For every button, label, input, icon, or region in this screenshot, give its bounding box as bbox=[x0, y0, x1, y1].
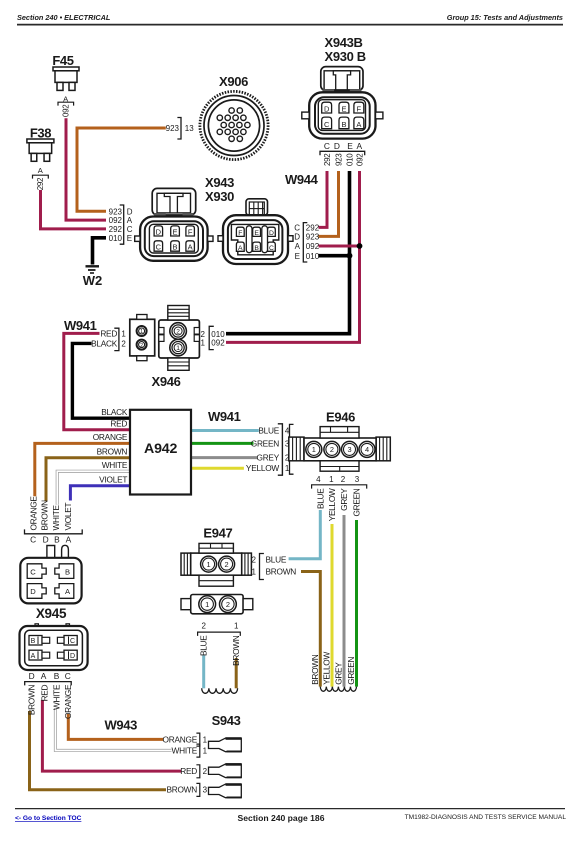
svg-text:A: A bbox=[127, 216, 133, 225]
svg-text:923: 923 bbox=[306, 233, 320, 242]
svg-text:F: F bbox=[238, 230, 242, 237]
svg-text:W943: W943 bbox=[105, 718, 138, 733]
svg-text:GREEN: GREEN bbox=[251, 438, 280, 448]
svg-text:1: 1 bbox=[207, 560, 211, 569]
svg-text:X943: X943 bbox=[205, 175, 234, 190]
svg-text:923: 923 bbox=[109, 207, 123, 216]
svg-text:X946: X946 bbox=[152, 374, 181, 389]
svg-text:2: 2 bbox=[121, 339, 126, 348]
svg-text:BLACK: BLACK bbox=[101, 407, 128, 417]
svg-text:A: A bbox=[238, 245, 243, 252]
svg-text:F: F bbox=[188, 228, 193, 237]
svg-text:GREEN: GREEN bbox=[346, 656, 356, 684]
svg-text:2: 2 bbox=[201, 330, 206, 339]
svg-text:2: 2 bbox=[140, 343, 143, 349]
svg-text:BROWN: BROWN bbox=[40, 500, 50, 531]
svg-text:923: 923 bbox=[334, 153, 343, 166]
svg-text:B: B bbox=[31, 638, 36, 645]
svg-text:C: C bbox=[324, 120, 330, 129]
svg-text:WHITE: WHITE bbox=[102, 460, 128, 470]
svg-text:BROWN: BROWN bbox=[166, 785, 197, 795]
svg-text:X945: X945 bbox=[36, 606, 67, 621]
svg-text:A: A bbox=[356, 120, 361, 129]
svg-text:092: 092 bbox=[61, 104, 70, 117]
svg-text:WHITE: WHITE bbox=[52, 684, 62, 710]
svg-text:W944: W944 bbox=[285, 172, 319, 187]
svg-text:GREY: GREY bbox=[334, 662, 344, 685]
svg-text:GREEN: GREEN bbox=[352, 488, 362, 516]
svg-text:ORANGE: ORANGE bbox=[63, 684, 73, 719]
svg-text:D: D bbox=[269, 230, 274, 237]
svg-text:BLUE: BLUE bbox=[199, 635, 209, 656]
svg-text:B: B bbox=[254, 245, 259, 252]
svg-text:2: 2 bbox=[225, 560, 229, 569]
svg-text:ORANGE: ORANGE bbox=[93, 432, 128, 442]
svg-text:923: 923 bbox=[166, 124, 180, 133]
svg-text:WHITE: WHITE bbox=[172, 745, 198, 755]
svg-text:3: 3 bbox=[203, 786, 208, 795]
svg-text:S943: S943 bbox=[212, 713, 241, 728]
svg-text:E947: E947 bbox=[203, 526, 232, 541]
svg-text:X906: X906 bbox=[219, 74, 248, 89]
svg-text:D: D bbox=[70, 653, 75, 660]
svg-text:292: 292 bbox=[306, 224, 320, 233]
svg-text:C: C bbox=[70, 638, 75, 645]
svg-text:C: C bbox=[65, 671, 71, 681]
svg-text:RED: RED bbox=[110, 419, 127, 429]
svg-text:X930 B: X930 B bbox=[325, 49, 366, 64]
svg-text:010: 010 bbox=[306, 252, 320, 261]
svg-text:1: 1 bbox=[329, 475, 334, 484]
svg-text:<- Go to Section TOC: <- Go to Section TOC bbox=[15, 815, 82, 822]
svg-text:A942: A942 bbox=[144, 441, 177, 457]
svg-text:D: D bbox=[156, 228, 162, 237]
svg-text:D: D bbox=[294, 233, 300, 242]
svg-text:W2: W2 bbox=[83, 273, 103, 288]
svg-text:2: 2 bbox=[252, 556, 257, 565]
svg-text:C: C bbox=[127, 225, 133, 234]
svg-text:X943B: X943B bbox=[325, 35, 363, 50]
svg-text:C: C bbox=[294, 224, 300, 233]
svg-text:E: E bbox=[295, 252, 300, 261]
svg-text:BLUE: BLUE bbox=[266, 555, 287, 565]
svg-text:BLACK: BLACK bbox=[91, 338, 118, 348]
svg-text:292: 292 bbox=[323, 153, 332, 166]
svg-text:RED: RED bbox=[40, 684, 50, 701]
svg-text:F45: F45 bbox=[52, 53, 73, 68]
svg-text:A: A bbox=[66, 535, 72, 545]
svg-text:B: B bbox=[65, 567, 70, 576]
svg-text:092: 092 bbox=[109, 216, 123, 225]
svg-text:4: 4 bbox=[365, 445, 369, 454]
svg-text:BLUE: BLUE bbox=[315, 488, 325, 509]
svg-text:E: E bbox=[254, 230, 259, 237]
svg-text:2: 2 bbox=[201, 622, 206, 631]
svg-text:Section 240 page 186: Section 240 page 186 bbox=[238, 813, 325, 823]
svg-text:BROWN: BROWN bbox=[97, 447, 128, 457]
svg-text:13: 13 bbox=[185, 124, 194, 133]
svg-text:092: 092 bbox=[355, 153, 364, 166]
svg-text:B: B bbox=[54, 671, 60, 681]
svg-text:292: 292 bbox=[109, 225, 123, 234]
svg-text:E946: E946 bbox=[326, 410, 355, 425]
svg-text:WHITE: WHITE bbox=[51, 505, 61, 531]
svg-text:E: E bbox=[127, 234, 132, 243]
svg-text:2: 2 bbox=[330, 445, 334, 454]
svg-text:2: 2 bbox=[176, 329, 180, 336]
svg-text:1: 1 bbox=[201, 339, 206, 348]
svg-text:VIOLET: VIOLET bbox=[99, 475, 127, 485]
svg-text:C: C bbox=[324, 141, 330, 151]
svg-text:F: F bbox=[357, 105, 362, 114]
svg-text:C: C bbox=[30, 535, 36, 545]
svg-text:GREY: GREY bbox=[339, 488, 349, 511]
svg-text:010: 010 bbox=[345, 153, 354, 166]
svg-text:C: C bbox=[30, 567, 36, 576]
svg-text:1: 1 bbox=[203, 746, 208, 755]
svg-text:2: 2 bbox=[226, 600, 230, 609]
svg-text:YELLOW: YELLOW bbox=[246, 463, 280, 473]
svg-text:RED: RED bbox=[180, 766, 197, 776]
svg-text:1: 1 bbox=[140, 329, 143, 335]
svg-text:2: 2 bbox=[203, 767, 208, 776]
svg-text:B: B bbox=[341, 120, 346, 129]
svg-text:D: D bbox=[324, 105, 330, 114]
svg-text:C: C bbox=[156, 243, 162, 252]
svg-text:ORANGE: ORANGE bbox=[29, 496, 39, 531]
svg-text:A: A bbox=[41, 671, 47, 681]
svg-text:4: 4 bbox=[316, 475, 321, 484]
svg-text:YELLOW: YELLOW bbox=[327, 488, 337, 521]
svg-text:292: 292 bbox=[36, 177, 45, 190]
svg-text:W941: W941 bbox=[208, 409, 241, 424]
svg-text:092: 092 bbox=[306, 242, 320, 251]
svg-text:A: A bbox=[188, 243, 193, 252]
svg-text:1: 1 bbox=[176, 345, 180, 352]
svg-text:RED: RED bbox=[100, 328, 117, 338]
svg-text:A: A bbox=[295, 242, 301, 251]
svg-text:3: 3 bbox=[355, 475, 360, 484]
svg-text:2: 2 bbox=[341, 475, 346, 484]
svg-text:ORANGE: ORANGE bbox=[163, 734, 198, 744]
svg-text:X930: X930 bbox=[205, 189, 234, 204]
svg-text:1: 1 bbox=[203, 735, 208, 744]
svg-text:VIOLET: VIOLET bbox=[63, 503, 73, 531]
svg-text:YELLOW: YELLOW bbox=[322, 652, 332, 685]
svg-text:010: 010 bbox=[211, 330, 225, 339]
svg-text:D: D bbox=[127, 207, 133, 216]
svg-text:BLUE: BLUE bbox=[258, 425, 279, 435]
svg-text:BROWN: BROWN bbox=[310, 654, 320, 685]
svg-text:D: D bbox=[30, 587, 36, 596]
svg-text:B: B bbox=[54, 535, 60, 545]
svg-text:D: D bbox=[43, 535, 49, 545]
svg-text:BROWN: BROWN bbox=[27, 685, 37, 716]
svg-text:010: 010 bbox=[109, 234, 123, 243]
svg-text:B: B bbox=[173, 243, 178, 252]
svg-text:E: E bbox=[173, 228, 178, 237]
svg-text:1: 1 bbox=[252, 568, 257, 577]
svg-text:C: C bbox=[269, 245, 274, 252]
svg-text:1: 1 bbox=[234, 622, 239, 631]
svg-text:092: 092 bbox=[211, 339, 225, 348]
svg-text:GREY: GREY bbox=[256, 453, 279, 463]
svg-text:D: D bbox=[29, 671, 35, 681]
svg-text:D: D bbox=[334, 141, 340, 151]
svg-text:BROWN: BROWN bbox=[231, 635, 241, 666]
svg-text:BROWN: BROWN bbox=[266, 567, 297, 577]
svg-text:Group 15: Tests and Adjustment: Group 15: Tests and Adjustments bbox=[447, 13, 563, 22]
svg-text:1: 1 bbox=[205, 600, 209, 609]
svg-text:1: 1 bbox=[121, 329, 126, 338]
svg-text:W941: W941 bbox=[64, 318, 97, 333]
svg-text:E: E bbox=[347, 141, 353, 151]
svg-text:A: A bbox=[357, 141, 363, 151]
svg-text:TM1982-DIAGNOSIS AND TESTS SER: TM1982-DIAGNOSIS AND TESTS SERVICE MANUA… bbox=[405, 814, 567, 821]
svg-text:A: A bbox=[31, 653, 36, 660]
svg-text:Section 240 • ELECTRICAL: Section 240 • ELECTRICAL bbox=[17, 13, 111, 22]
svg-text:1: 1 bbox=[312, 445, 316, 454]
svg-text:3: 3 bbox=[347, 445, 351, 454]
svg-text:E: E bbox=[341, 105, 346, 114]
